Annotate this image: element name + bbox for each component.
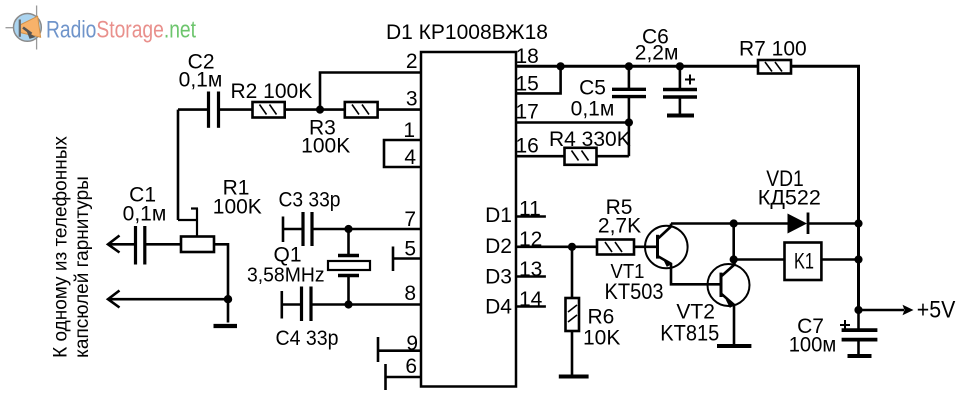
node rail +5V	[854, 306, 862, 314]
svg-text:6: 6	[405, 355, 417, 378]
capacitor C5	[571, 66, 646, 122]
svg-text:0,1м: 0,1м	[179, 68, 223, 91]
ground under R6	[559, 375, 589, 379]
wire arrow to capsule (lower)	[108, 291, 228, 308]
left vertical annotation text	[51, 136, 94, 358]
wire C3 to IC pin 7	[312, 228, 421, 231]
svg-text:+5V: +5V	[917, 297, 956, 324]
svg-text:R2 100K: R2 100K	[231, 80, 313, 103]
svg-text:10K: 10K	[583, 327, 620, 350]
transistor VT1	[605, 224, 720, 305]
svg-text:3,58MHz: 3,58MHz	[247, 265, 325, 287]
capacitor C3	[279, 189, 341, 246]
pins 1-4 strap	[384, 140, 421, 167]
pin number labels right	[516, 45, 543, 311]
svg-text:17: 17	[516, 100, 539, 123]
node C5 top	[625, 62, 633, 70]
pin 17 wire	[516, 121, 629, 124]
crystal Q1	[247, 229, 370, 305]
pin 13 stub	[516, 275, 546, 278]
+5V arrow	[859, 297, 956, 324]
wire VT1 collector to VD1/VT2 node	[671, 224, 734, 260]
svg-text:2,7K: 2,7K	[598, 215, 641, 238]
pin 5 stub terminator	[393, 247, 421, 272]
capacitor C7 polarized	[789, 310, 878, 357]
svg-text:D1: D1	[485, 204, 512, 227]
node VT2 collector / K1	[730, 255, 738, 263]
top supply wire pin18 to R7 to rail	[516, 66, 859, 310]
svg-text:3: 3	[406, 87, 418, 110]
wire R2 to junction to R3	[285, 108, 345, 111]
svg-text:7: 7	[404, 208, 416, 231]
node C6 top	[676, 62, 684, 70]
node crystal bottom	[344, 300, 352, 308]
svg-text:D3: D3	[485, 266, 512, 289]
svg-text:R7 100: R7 100	[739, 38, 807, 61]
wire arrow to capsule (upper)	[108, 236, 136, 253]
svg-text:K1: K1	[794, 249, 814, 274]
pin 11 stub	[516, 215, 546, 218]
resistor R6	[566, 247, 621, 375]
svg-text:5: 5	[404, 238, 416, 261]
IC internal D1-D4 labels	[485, 204, 512, 319]
svg-text:KT503: KT503	[605, 279, 664, 304]
svg-text:0,1м: 0,1м	[123, 203, 167, 226]
pin 15 wire	[516, 66, 561, 93]
resistor R4	[516, 123, 631, 165]
pin 9 stub terminator	[378, 337, 421, 362]
wire C2 to R1 tap	[177, 110, 180, 220]
pin number labels left	[403, 50, 418, 378]
node R2/R3 junction	[316, 106, 324, 114]
logo RadioStorage.net	[6, 6, 197, 50]
svg-text:15: 15	[516, 73, 539, 96]
resistor R3	[301, 102, 421, 158]
capacitor C4	[276, 287, 339, 351]
svg-text:2: 2	[406, 50, 418, 73]
svg-text:KT815: KT815	[660, 321, 719, 346]
ground under C7	[848, 354, 872, 358]
svg-text:D1 КР1008ВЖ18: D1 КР1008ВЖ18	[386, 21, 548, 44]
node R1/ground junction	[224, 295, 232, 303]
svg-text:R6: R6	[588, 306, 615, 329]
node pin15/18	[557, 62, 565, 70]
wire R1 right to ground node	[214, 244, 228, 322]
ground under C6	[667, 114, 694, 118]
potentiometer R1	[178, 177, 262, 253]
resistor R5	[597, 196, 657, 255]
svg-text:D4: D4	[485, 296, 512, 319]
svg-text:C5: C5	[579, 77, 606, 100]
svg-text:капсюлей гарнитуры: капсюлей гарнитуры	[72, 176, 93, 358]
node C5 bottom / pin17	[625, 118, 633, 126]
ground under VT2	[717, 344, 751, 348]
wire C4 to IC pin 8	[311, 303, 421, 306]
resistor R7	[739, 38, 807, 74]
svg-text:2,2м: 2,2м	[635, 42, 679, 65]
svg-text:100м: 100м	[789, 334, 837, 357]
node crystal top	[344, 225, 352, 233]
node rail VD1	[854, 219, 862, 227]
resistor R2	[219, 80, 313, 118]
svg-text:9: 9	[406, 332, 418, 355]
svg-text:КД522: КД522	[758, 187, 821, 210]
ground under R1	[214, 324, 238, 328]
svg-text:Q1: Q1	[273, 244, 301, 267]
capacitor C6 polarized	[635, 25, 697, 113]
pin 14 stub	[516, 305, 546, 308]
pin 12 wire to R5	[516, 246, 597, 249]
pin 6 stub terminator	[386, 364, 422, 390]
svg-text:RadioStorage.net: RadioStorage.net	[46, 17, 196, 44]
node collector top	[730, 219, 738, 227]
svg-text:8: 8	[404, 282, 416, 305]
capacitor C2	[178, 51, 222, 128]
svg-text:100K: 100K	[213, 196, 262, 219]
svg-text:4: 4	[404, 146, 416, 169]
svg-text:R4 330K: R4 330K	[549, 128, 631, 151]
relay K1	[734, 243, 859, 281]
svg-text:1: 1	[403, 119, 415, 142]
node rail K1	[854, 255, 862, 263]
svg-text:0,1м: 0,1м	[571, 97, 615, 120]
op-amp U1 IC body D1	[386, 21, 548, 387]
transistor VT2	[660, 260, 749, 346]
svg-text:C3 33p: C3 33p	[279, 189, 341, 212]
svg-text:16: 16	[516, 135, 539, 158]
svg-text:C4 33p: C4 33p	[276, 327, 339, 350]
capacitor C1	[123, 184, 181, 265]
wire junction to IC pin 2	[320, 73, 421, 110]
node R5/R6 junction	[568, 243, 576, 251]
svg-text:К одному из телефонных: К одному из телефонных	[51, 136, 72, 358]
diode VD1	[734, 166, 859, 234]
svg-text:100K: 100K	[301, 135, 350, 158]
svg-text:18: 18	[516, 45, 539, 68]
svg-text:D2: D2	[485, 235, 512, 258]
